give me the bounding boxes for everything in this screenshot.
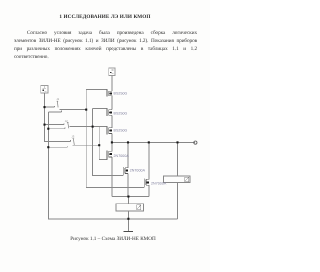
node output / Q6 drain — [148, 141, 150, 143]
wire switch2 gnd stub — [48, 127, 65, 128]
wire switch3 +V nub — [70, 140, 72, 141]
svg-text:BS250G: BS250G — [114, 111, 128, 115]
node input3 — [98, 144, 100, 146]
wire T1 gate — [86, 89, 107, 91]
heading — [0, 14, 210, 20]
output terminal — [194, 141, 197, 144]
svg-text:2N7000A: 2N7000A — [130, 169, 146, 173]
svg-text:J3: J3 — [71, 134, 74, 138]
wire switch2 +V stub — [45, 123, 64, 124]
switch J3 — [73, 139, 75, 145]
wire pmos column — [111, 96, 113, 143]
wire nmos3 drain — [148, 142, 150, 179]
wire nmos1 drain/source — [111, 142, 113, 196]
wire input2 riser R2 — [93, 109, 124, 176]
power source V2 — [41, 85, 48, 93]
wire nmos3 source — [148, 185, 150, 196]
wire +V bus — [45, 93, 71, 142]
wire V1 to Q1 — [111, 76, 113, 92]
svg-text:2N7000A: 2N7000A — [151, 181, 167, 185]
wire ammeter drop — [127, 197, 129, 219]
node input1 — [85, 109, 87, 111]
transistor Q3 pmos — [107, 127, 112, 135]
junction gnd rail / ground — [127, 218, 129, 220]
ammeter A1 — [116, 204, 144, 211]
transistor Q2 pmos — [107, 109, 112, 117]
labels — [114, 91, 167, 185]
wire switch3 output — [73, 144, 100, 146]
transistor Q1 pmos — [107, 90, 112, 97]
switch J1 — [57, 101, 59, 107]
svg-text:J2: J2 — [65, 119, 68, 123]
voltmeter V — [164, 176, 191, 182]
junction +V bus / switch2 — [43, 124, 45, 126]
figure caption — [8, 236, 218, 242]
svg-text:BS250G: BS250G — [114, 91, 128, 95]
junction gnd bus / switch2 — [47, 128, 49, 130]
wire input3 riser R3 — [99, 127, 107, 160]
paragraph — [14, 30, 197, 62]
svg-text:J1: J1 — [56, 97, 59, 101]
wire switch3 gnd stub — [48, 146, 67, 147]
transistor Q5 nmos — [123, 167, 128, 175]
wire switch1 gnd stub — [48, 111, 61, 112]
ground — [127, 219, 129, 231]
junction gnd bus / switch3 — [47, 146, 49, 148]
wire gnd bus — [48, 112, 177, 219]
wire output rail — [112, 141, 195, 143]
svg-text:BS250G: BS250G — [114, 129, 128, 133]
node output / Q5 drain — [127, 141, 129, 143]
wire T2 gate — [93, 108, 108, 110]
wire switch1 +V stub — [45, 106, 55, 107]
wire voltmeter drop — [177, 142, 179, 218]
wire nmos2 source — [127, 174, 129, 197]
wire nmos2 drain — [127, 142, 129, 167]
switch J2 — [67, 123, 69, 129]
wire switch1 output — [60, 109, 87, 111]
node input2 — [92, 126, 94, 128]
svg-text:2N7000A: 2N7000A — [114, 154, 130, 158]
junction source rail / ammeter — [127, 195, 129, 197]
transistor Q4 nmos — [107, 151, 112, 160]
wire switch2 output to T3 gate — [70, 126, 108, 128]
node output / Q3 drain — [111, 141, 113, 143]
junction +V bus / switch1 — [43, 106, 45, 108]
node output / voltmeter — [176, 141, 178, 143]
transistor Q6 nmos — [144, 179, 149, 188]
power source V1 — [109, 68, 116, 76]
wire input1 riser R1 — [86, 90, 144, 188]
wire nmos source rail — [112, 196, 149, 198]
